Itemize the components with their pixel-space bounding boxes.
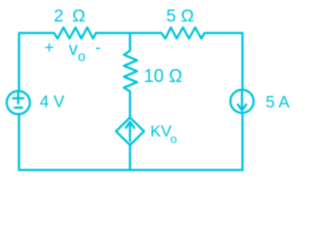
wire top-left segment xyxy=(19,33,54,91)
svg-text:4 V: 4 V xyxy=(40,93,65,111)
arrow inside KVo diamond xyxy=(126,122,134,141)
voltage source V1 4V circle xyxy=(7,91,30,114)
svg-text:+: + xyxy=(44,39,54,57)
svg-text:5 A: 5 A xyxy=(266,94,290,112)
resistor R1 2ohm zigzag xyxy=(54,28,96,39)
wire bottom segment xyxy=(19,169,243,171)
wire middle-branch bottom xyxy=(129,145,131,170)
svg-text:Ω: Ω xyxy=(72,6,85,26)
svg-text:2: 2 xyxy=(54,6,64,26)
wire middle-branch top xyxy=(129,33,131,51)
wire top-middle segment xyxy=(96,32,161,34)
arrow inside I1 xyxy=(238,92,246,111)
svg-text:KV: KV xyxy=(150,123,172,140)
resistor R3 10ohm vertical zigzag xyxy=(124,51,137,92)
wire left-bottom segment xyxy=(18,114,20,170)
svg-text:5 Ω: 5 Ω xyxy=(166,5,194,25)
svg-text:10 Ω: 10 Ω xyxy=(144,66,182,86)
wire middle between resistor and source xyxy=(129,92,131,118)
svg-text:o: o xyxy=(78,48,86,64)
minus sign inside V1 xyxy=(15,106,22,108)
svg-text:o: o xyxy=(170,132,177,146)
svg-text:v: v xyxy=(69,39,78,59)
resistor R2 5ohm zigzag xyxy=(161,28,204,39)
wire top-right segment xyxy=(205,33,243,90)
svg-text:-: - xyxy=(95,39,101,57)
wire right-bottom segment xyxy=(241,113,243,170)
current source I1 5A circle xyxy=(230,90,253,113)
plus sign inside V1 xyxy=(13,93,23,103)
dependent source KVo diamond xyxy=(116,118,144,146)
